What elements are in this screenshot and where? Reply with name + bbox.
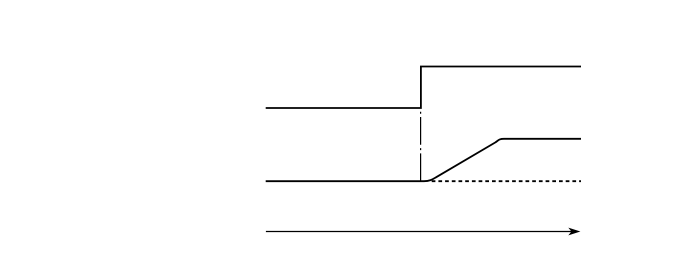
step input waveform — [266, 67, 581, 109]
time axis arrowhead — [568, 228, 580, 236]
dashed baseline extension — [432, 180, 581, 182]
time axis arrow shaft — [266, 231, 573, 233]
response curve (solid baseline then smooth ramp to upper level) — [266, 139, 581, 181]
vertical dash-dot event marker line — [420, 112, 422, 182]
